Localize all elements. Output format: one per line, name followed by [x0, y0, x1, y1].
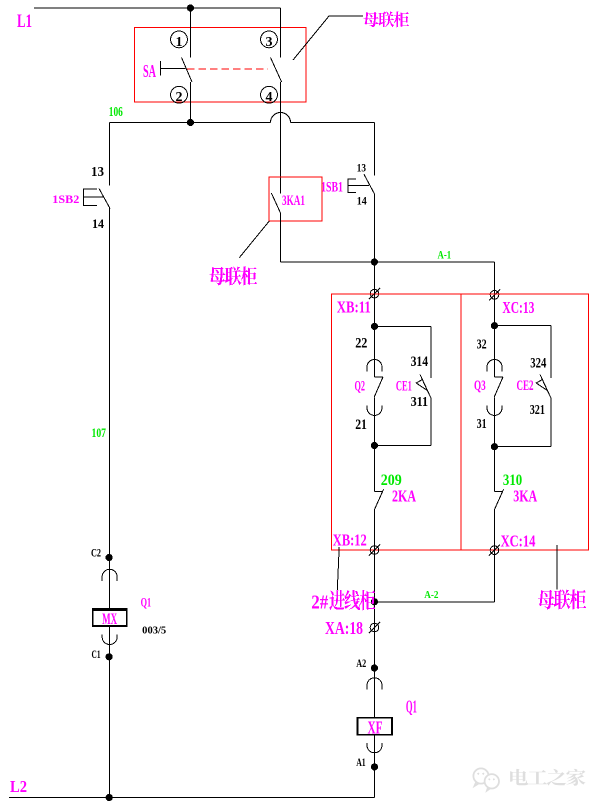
svg-text:3KA1: 3KA1 — [282, 193, 305, 209]
svg-text:311: 311 — [411, 394, 429, 409]
svg-text:32: 32 — [477, 337, 487, 352]
svg-text:XF: XF — [368, 717, 383, 737]
svg-text:31: 31 — [477, 417, 487, 432]
svg-text:XA:18: XA:18 — [325, 618, 363, 638]
svg-text:14: 14 — [92, 217, 105, 231]
svg-text:A2: A2 — [356, 658, 366, 670]
svg-text:1: 1 — [176, 35, 183, 50]
svg-text:13: 13 — [91, 164, 104, 179]
svg-text:1SB2: 1SB2 — [52, 192, 79, 206]
svg-text:Q2: Q2 — [355, 379, 366, 395]
svg-text:XC:13: XC:13 — [502, 298, 534, 317]
svg-text:324: 324 — [530, 356, 546, 372]
svg-text:XC:14: XC:14 — [501, 532, 536, 551]
svg-text:A-2: A-2 — [424, 590, 438, 601]
svg-text:003/5: 003/5 — [142, 626, 166, 637]
svg-text:SA: SA — [143, 61, 156, 81]
svg-text:Q1: Q1 — [406, 696, 417, 716]
svg-text:L2: L2 — [10, 777, 27, 796]
svg-text:Q1: Q1 — [141, 595, 152, 610]
svg-text:14: 14 — [357, 196, 367, 208]
svg-text:CE2: CE2 — [517, 378, 534, 394]
svg-text:21: 21 — [355, 417, 367, 433]
svg-text:A1: A1 — [356, 757, 366, 769]
svg-text:3: 3 — [266, 35, 273, 50]
svg-text:107: 107 — [92, 426, 107, 440]
svg-text:A-1: A-1 — [438, 250, 452, 262]
svg-text:2#: 2# — [311, 592, 328, 614]
svg-text:22: 22 — [355, 335, 367, 351]
svg-text:L1: L1 — [17, 11, 32, 32]
svg-text:4: 4 — [266, 90, 273, 105]
svg-text:C2: C2 — [91, 547, 101, 559]
svg-text:MX: MX — [102, 610, 117, 628]
svg-text:XB:11: XB:11 — [337, 298, 371, 317]
svg-text:321: 321 — [530, 402, 545, 417]
svg-text:2KA: 2KA — [392, 487, 416, 506]
svg-text:3KA: 3KA — [513, 487, 537, 506]
svg-text:C1: C1 — [92, 649, 101, 661]
svg-text:13: 13 — [357, 163, 366, 175]
svg-text:314: 314 — [411, 354, 429, 370]
svg-text:CE1: CE1 — [396, 379, 412, 395]
svg-text:2: 2 — [176, 90, 183, 105]
svg-text:106: 106 — [109, 105, 123, 120]
svg-text:1SB1: 1SB1 — [321, 179, 343, 196]
svg-text:Q3: Q3 — [474, 378, 486, 394]
svg-text:XB:12: XB:12 — [333, 531, 367, 550]
